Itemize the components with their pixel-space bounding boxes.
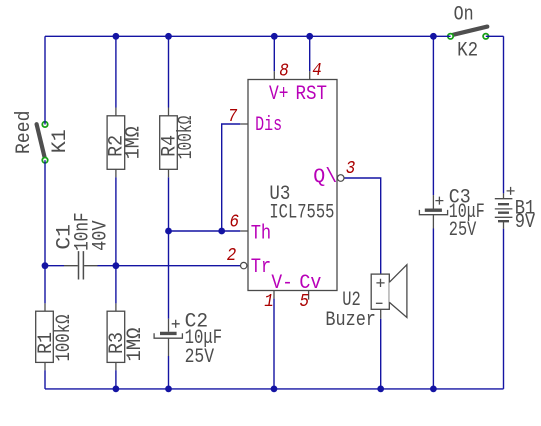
svg-text:5: 5	[300, 292, 310, 312]
node top rail R2 junction	[113, 33, 120, 40]
svg-text:40V: 40V	[90, 220, 113, 251]
node top rail pin4 junction	[306, 33, 313, 40]
capacitor C2 pins	[168, 319, 170, 356]
wire C1 left	[45, 265, 64, 267]
svg-text:Q\: Q\	[313, 166, 337, 189]
resistor R2 pins	[115, 108, 117, 178]
node bottom rail pin1 junction	[271, 386, 278, 393]
resistor R1 body	[36, 311, 54, 362]
buzzer U2 body	[371, 274, 389, 309]
wire C2 column lower	[168, 356, 170, 389]
capacitor C3 bottom plate bracket	[419, 210, 447, 215]
wire Th pin6	[169, 230, 241, 232]
svg-text:V-: V-	[271, 272, 293, 295]
switch K2 left contact	[448, 34, 453, 39]
switch K2 right contact	[483, 34, 488, 39]
wire top rail	[45, 35, 451, 37]
pin 8 stub	[273, 71, 275, 79]
wire right column lower	[503, 229, 505, 389]
node bottom rail C2 junction	[165, 386, 172, 393]
svg-text:100kΩ: 100kΩ	[175, 116, 198, 160]
svg-text:100kΩ: 100kΩ	[53, 315, 76, 362]
svg-text:2: 2	[227, 246, 237, 266]
node C1 left junction	[42, 262, 49, 269]
node top rail pin8 junction	[271, 33, 278, 40]
switch K1 top contact	[42, 122, 47, 127]
plus sign U2	[376, 279, 384, 287]
svg-text:25V: 25V	[185, 346, 215, 369]
capacitor C2 top plate	[160, 332, 177, 335]
wire pin4 stub	[309, 36, 311, 71]
wire top rail right segment	[486, 35, 504, 37]
pin 1 stub	[273, 291, 275, 299]
svg-text:1: 1	[264, 292, 274, 312]
switch K1 lever	[37, 124, 45, 158]
node C1 right junction	[113, 262, 120, 269]
node Th R4 junction	[165, 228, 172, 235]
wire R2 column upper	[115, 36, 117, 107]
battery B1 plates	[495, 199, 513, 218]
capacitor C3 top plate	[425, 208, 442, 211]
pin 5 stub	[308, 291, 310, 300]
svg-text:RST: RST	[296, 83, 328, 106]
wire pin7 to node	[222, 124, 241, 231]
svg-text:8: 8	[279, 61, 289, 81]
node bottom rail C3 junction	[430, 386, 437, 393]
svg-text:On: On	[454, 3, 474, 26]
capacitor C1 pins	[64, 265, 98, 267]
wire left column upper	[44, 36, 46, 124]
pin 4 stub	[309, 71, 311, 79]
node Th pin7 junction	[218, 228, 225, 235]
plus sign C3	[435, 197, 443, 205]
wire Q output to buzzer	[344, 178, 381, 274]
resistor R3 body	[107, 311, 125, 362]
wire R3 column lower	[115, 370, 117, 389]
wire pin1 to bottom rail	[273, 299, 275, 389]
resistor R4 pins	[168, 108, 170, 178]
wire pin8 stub	[273, 36, 275, 71]
wire R4 column upper	[168, 36, 170, 107]
node bottom rail R3 junction	[113, 386, 120, 393]
wire right column	[503, 36, 505, 193]
svg-text:4: 4	[312, 61, 322, 81]
wire buzzer to bottom rail	[380, 319, 382, 389]
svg-text:9V: 9V	[515, 211, 536, 234]
svg-text:1MΩ: 1MΩ	[122, 126, 145, 159]
pin 3 inverted circle	[337, 175, 344, 182]
switch K1 bottom contact	[42, 158, 47, 163]
op-amp U3 IC body	[248, 80, 337, 291]
buzzer U2 cone	[389, 265, 407, 318]
node top rail C3 junction	[430, 33, 437, 40]
capacitor C2 bottom plate bracket	[154, 333, 182, 338]
wire C3 column lower	[432, 229, 434, 389]
svg-text:Tr: Tr	[251, 256, 272, 279]
capacitor C3 pins	[432, 195, 434, 228]
wire R4-C2 column middle	[168, 177, 170, 319]
resistor R3 pins	[115, 303, 117, 370]
svg-text:25V: 25V	[449, 219, 477, 242]
svg-text:ICL7555: ICL7555	[269, 202, 334, 225]
buzzer bottom pin	[380, 309, 382, 318]
plus sign C2	[172, 320, 180, 328]
svg-text:Reed: Reed	[13, 111, 36, 155]
minus sign U2	[376, 302, 383, 304]
svg-text:Th: Th	[251, 222, 272, 245]
wire R2-R3 column middle	[115, 177, 117, 303]
wire Tr pin2	[97, 265, 240, 267]
svg-text:Dis: Dis	[255, 114, 282, 137]
battery B1 pins	[503, 193, 505, 228]
capacitor C1 plates	[79, 251, 84, 279]
resistor R2 body	[107, 116, 125, 170]
svg-text:7: 7	[228, 107, 238, 127]
pin 2 inverted circle	[241, 262, 247, 268]
svg-text:V+: V+	[269, 83, 289, 106]
switch K2 lever	[453, 27, 487, 35]
svg-text:1MΩ: 1MΩ	[124, 328, 147, 362]
wire left column middle	[44, 160, 46, 303]
plus sign B1	[507, 187, 515, 195]
resistor R4 body	[160, 116, 178, 170]
wire C3 column upper	[432, 36, 434, 195]
svg-text:3: 3	[346, 159, 356, 179]
svg-text:Buzer: Buzer	[325, 309, 376, 332]
svg-text:K1: K1	[49, 129, 72, 153]
svg-text:K2: K2	[457, 40, 478, 63]
pin 6 stub	[240, 230, 248, 232]
wire left column lower	[44, 370, 46, 389]
node top rail R4 junction	[165, 33, 172, 40]
wire bottom rail	[45, 388, 504, 390]
resistor R1 pins	[44, 303, 46, 370]
battery B1 thick bars	[498, 204, 509, 221]
svg-text:6: 6	[230, 212, 240, 232]
pin 7 stub	[240, 123, 248, 125]
node bottom rail buzzer junction	[377, 386, 384, 393]
